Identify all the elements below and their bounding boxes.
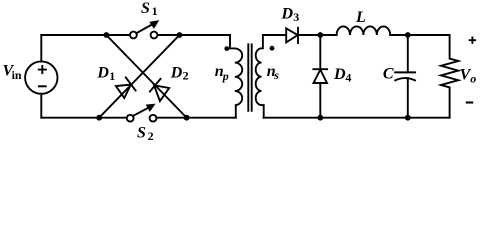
wire top rail left (41, 34, 130, 36)
diode D2 (on diagonal A, pointing up-left) (154, 85, 169, 101)
svg-text:D: D (170, 64, 183, 81)
svg-text:2: 2 (148, 129, 154, 143)
switch S1 lever (136, 24, 152, 33)
capacitor C branch (407, 35, 409, 118)
svg-text:2: 2 (183, 69, 189, 83)
Vin plus sign (39, 66, 46, 73)
capacitor C bottom plate (curved) (395, 78, 415, 80)
wire top rail middle (right contact of S1 to primary) (157, 34, 230, 36)
transformer secondary winding ns (256, 35, 264, 118)
svg-text:1: 1 (109, 69, 115, 83)
source Vin (25, 61, 57, 93)
capacitor C top plate (395, 71, 415, 73)
wire Vin top lead (40, 35, 42, 61)
load resistor Vo (zigzag) (441, 35, 458, 118)
node L-C junction (405, 32, 411, 38)
svg-text:o: o (470, 72, 476, 86)
svg-text:4: 4 (345, 71, 351, 85)
label output minus (466, 101, 473, 103)
node C bottom junction (405, 115, 411, 121)
node top-left junction (103, 32, 109, 38)
switch S1 contacts (130, 32, 137, 39)
transformer primary winding np (230, 35, 242, 118)
svg-text:L: L (355, 9, 366, 26)
svg-text:s: s (273, 68, 279, 82)
inductor L (337, 26, 391, 35)
svg-text:D: D (96, 65, 109, 82)
svg-text:S: S (137, 124, 146, 141)
diode D1 (on diagonal B, pointing up-right) (116, 85, 131, 98)
wire diagonal A (top-left node to bottom-right node) (106, 35, 186, 118)
wire bottom rail left (41, 117, 127, 119)
svg-text:in: in (12, 68, 22, 82)
wire secondary top rail to D3 (263, 34, 286, 36)
diode D4 (pointing up) (314, 70, 328, 83)
node D4 bottom junction (317, 115, 323, 121)
wire bottom rail middle (right contact of S2 to primary) (156, 117, 236, 119)
switch S2 contacts (127, 115, 134, 122)
wire Vin bottom lead (40, 94, 42, 118)
svg-text:p: p (222, 69, 229, 83)
svg-text:C: C (383, 66, 394, 83)
node bottom-right junction (184, 115, 190, 121)
wire diagonal B (bottom-left node to top-right node) (99, 35, 179, 118)
label output plus (469, 37, 476, 44)
primary polarity dot (224, 46, 229, 51)
switch S2 lever (133, 107, 149, 116)
svg-text:1: 1 (152, 4, 158, 18)
svg-text:D: D (281, 6, 294, 23)
node top-right junction (177, 32, 183, 38)
wire D3 to L (298, 34, 337, 36)
node bottom-left junction (96, 115, 102, 121)
svg-text:S: S (141, 0, 150, 17)
svg-text:D: D (333, 66, 346, 83)
diode D3 (pointing right) (286, 28, 298, 42)
transformer core (248, 44, 251, 111)
diode D4 branch wire (319, 35, 321, 118)
svg-text:3: 3 (293, 10, 299, 24)
secondary polarity dot (270, 46, 275, 51)
wire L to C junction to load corner (390, 34, 449, 36)
node D3-D4 junction (317, 32, 323, 38)
Vin minus sign (39, 85, 46, 87)
wire bottom rail right (264, 117, 450, 119)
